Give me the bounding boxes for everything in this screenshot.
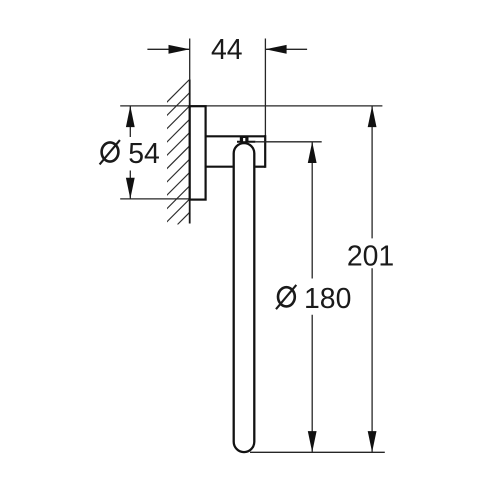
svg-text:180: 180 — [304, 283, 351, 315]
svg-text:44: 44 — [211, 34, 243, 66]
arrowhead 201 up — [368, 106, 377, 127]
arm bottom edge right of ring — [255, 166, 265, 168]
extension line 44 right — [264, 39, 266, 144]
arm front edge — [264, 135, 266, 168]
ring cap shoulder — [237, 141, 255, 143]
arm bottom edge left of ring — [206, 166, 233, 168]
arrowhead D180 up — [308, 142, 317, 163]
wall face line — [189, 80, 191, 224]
dimension line 201 lower segment — [371, 268, 373, 452]
dimension line 201 upper segment — [371, 106, 373, 239]
arrowhead 201 down — [368, 431, 377, 452]
arrowhead D54 down — [126, 178, 135, 199]
arrowhead 44 right — [265, 45, 286, 54]
arrowhead 44 left — [169, 45, 190, 54]
dimension text D180 diameter symbol — [278, 287, 295, 306]
dimension line D180 upper segment — [311, 142, 313, 279]
wall hatching — [45, 80, 336, 225]
arm top edge — [206, 135, 266, 137]
extension line ring top (D180) — [256, 141, 322, 143]
extension line plate bottom (D54) — [120, 198, 190, 200]
towel ring (side view capsule) — [234, 143, 255, 452]
mounting plate (side view) — [190, 106, 206, 199]
dimension line 44 right leader — [265, 48, 307, 50]
svg-text:54: 54 — [128, 138, 160, 170]
arrowhead D54 up — [126, 106, 135, 127]
dimension line D54 lower segment — [129, 171, 131, 199]
pivot pin slot — [243, 138, 245, 141]
pivot pin — [240, 137, 249, 143]
dimension line D54 upper segment — [129, 106, 131, 137]
dimension text D54 diameter symbol — [102, 142, 119, 161]
dimension line D180 lower segment — [311, 315, 313, 453]
extension line top (plate top, shared by D54 and 201) — [120, 105, 382, 107]
arrowhead D180 down — [308, 431, 317, 452]
dimension line 44 left leader — [147, 48, 189, 50]
extension line ring bottom (D180 and 201) — [250, 451, 385, 453]
svg-text:201: 201 — [347, 241, 394, 273]
extension line 44 left (wall line extended up) — [189, 39, 191, 81]
